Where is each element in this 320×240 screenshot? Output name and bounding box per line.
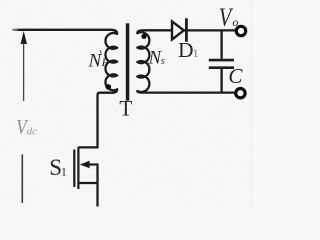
- svg-text:1: 1: [61, 167, 67, 179]
- svg-text:P: P: [101, 55, 110, 69]
- svg-text:1: 1: [193, 46, 199, 60]
- svg-text:C: C: [228, 64, 243, 88]
- svg-text:D: D: [178, 38, 194, 62]
- svg-text:N: N: [88, 50, 103, 71]
- svg-text:dc: dc: [27, 126, 37, 138]
- svg-text:s: s: [161, 56, 165, 67]
- svg-text:o: o: [232, 15, 238, 29]
- svg-text:T: T: [119, 96, 133, 121]
